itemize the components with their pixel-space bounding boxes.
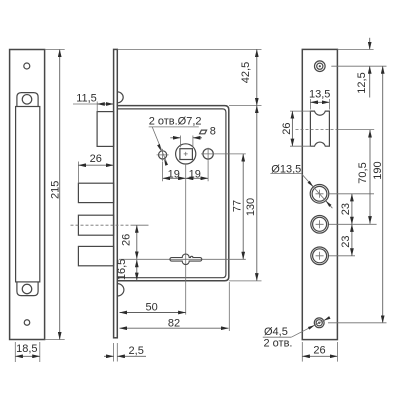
lock body outer outline [118, 106, 229, 281]
left plate bottom screw hole [24, 320, 30, 326]
bottom screw hole [314, 318, 324, 328]
dimension 26 bottom [302, 355, 337, 357]
svg-text:2,5: 2,5 [129, 345, 144, 357]
2,5 extension lines [113, 343, 115, 362]
svg-text:215: 215 [49, 181, 61, 199]
svg-text:12,5: 12,5 [356, 72, 368, 93]
lock body inner line [118, 109, 226, 278]
faceplate bottom bump [117, 284, 124, 296]
faceplate top bump [117, 92, 123, 103]
svg-text:19: 19 [189, 168, 201, 180]
12,5 bottom arrow stub [369, 66, 371, 97]
svg-text:19: 19 [168, 168, 180, 180]
right hole Ø7,2 [203, 149, 213, 159]
top hole center extension [331, 65, 386, 67]
dimension 13,5 [310, 101, 329, 103]
big hole C2 [311, 216, 329, 234]
2,5 outside arrows [104, 355, 114, 357]
left hole Ø7,2 [159, 151, 167, 159]
keyhole vertical centerline [185, 164, 187, 315]
body top extension [229, 105, 262, 107]
svg-text:2 отв.Ø7,2: 2 отв.Ø7,2 [149, 116, 202, 128]
big hole C3 [311, 247, 329, 265]
left plate bottom latch box [17, 282, 38, 296]
vertical dim 26 keyhole [136, 225, 138, 259]
right hole horizontal centerline to 77 dim [201, 153, 246, 155]
keyhole [170, 254, 202, 265]
left plate bottom latch circle [22, 284, 32, 294]
svg-text:50: 50 [145, 301, 157, 313]
label leader shelf [149, 126, 199, 128]
svg-text:23: 23 [340, 235, 352, 247]
left strike plate outline [10, 50, 45, 340]
dimension 190 [382, 66, 384, 323]
svg-text:77: 77 [231, 200, 243, 212]
dimension 23 upper [351, 194, 353, 225]
left plate top latch box [17, 93, 38, 107]
svg-text:8: 8 [210, 125, 216, 137]
svg-text:190: 190 [372, 161, 384, 179]
square hole [180, 149, 193, 160]
extension line top for 215 [45, 49, 65, 51]
Ø13,5 leader shelf [270, 173, 301, 175]
right plate top screw hole [315, 61, 326, 72]
dimension 26 cutout [291, 111, 293, 146]
13,5 extension lines [309, 99, 311, 110]
dimension 82 [120, 327, 229, 329]
left plate top latch circle [22, 95, 32, 105]
svg-text:16,5: 16,5 [116, 259, 128, 280]
dimension 70,5 [369, 130, 371, 224]
dimension 215 line [59, 50, 61, 340]
svg-text:11,5: 11,5 [76, 92, 97, 104]
big hole C1 [310, 185, 329, 204]
11,5 dimension line with tail [73, 103, 97, 105]
11,5 extension line [96, 102, 98, 112]
svg-text:13,5: 13,5 [309, 88, 330, 100]
Ø13,5 leader diagonal [301, 174, 332, 209]
26 bolts extension line [77, 162, 79, 184]
C1 extension line [329, 193, 374, 195]
square hole center mark [184, 152, 188, 156]
left plate top screw hole [24, 63, 30, 69]
svg-text:2 отв.: 2 отв. [264, 338, 293, 350]
svg-text:23: 23 [340, 203, 352, 215]
bolt A [78, 183, 113, 202]
C3 extension line [329, 255, 355, 257]
dimension 42,5 [256, 49, 258, 105]
12,5 outside arrows [369, 38, 371, 50]
right plate top extension [337, 48, 373, 50]
dimension 23 lower [351, 224, 353, 256]
svg-text:82: 82 [168, 318, 180, 330]
bolt B dashed centerline [71, 224, 133, 226]
bolt B [78, 215, 113, 235]
square hole circle [176, 144, 196, 164]
dimension 77 [242, 154, 244, 259]
26 cutout extension lines [290, 110, 311, 112]
8 dim outside arrows [170, 137, 180, 139]
bolt C [78, 246, 113, 265]
bottom hole center extension [328, 322, 387, 324]
extension lines for 18,5 [14, 342, 16, 362]
right hole vertical centerline [207, 148, 209, 160]
svg-text:42,5: 42,5 [240, 62, 252, 83]
svg-text:Ø4,5: Ø4,5 [264, 326, 288, 338]
Ø4,5 leader diagonal [291, 318, 329, 338]
body bottom extension [229, 280, 262, 282]
right plate outline [302, 49, 337, 339]
dimension 19 right [186, 177, 208, 179]
svg-text:130: 130 [245, 198, 257, 216]
Ø4,5 leader shelf [263, 336, 292, 338]
dimension 26 bolts [78, 164, 113, 166]
19 19 extension lines [162, 162, 164, 182]
vertical dim 16,5 [136, 260, 138, 281]
faceplate top extension to 42,5 [118, 48, 262, 50]
keyhole horizontal centerline [119, 258, 246, 260]
26 bottom extension lines [301, 342, 303, 362]
svg-text:26: 26 [281, 122, 293, 134]
dimension 130 [256, 106, 258, 281]
C2 extension line [329, 223, 377, 225]
svg-text:26: 26 [313, 345, 325, 357]
cutout dashed centerline [296, 129, 338, 131]
top bolt [97, 112, 114, 147]
svg-text:18,5: 18,5 [16, 343, 37, 355]
dimension 19 left [163, 177, 186, 179]
82 right extension [228, 282, 230, 331]
svg-text:70,5: 70,5 [357, 162, 369, 183]
extension line bottom for 215 [45, 339, 65, 341]
dimension 18,5 line [15, 355, 40, 357]
dimension 50 [120, 312, 186, 314]
8 dim extension lines from square corners [179, 136, 181, 148]
left plate inner rectangle [16, 107, 40, 282]
square symbol [200, 130, 207, 134]
leader to left hole [152, 127, 167, 163]
latch cutout [310, 111, 329, 146]
middle faceplate strip [114, 49, 118, 337]
left hole center cross [157, 149, 169, 161]
svg-text:26: 26 [90, 153, 102, 165]
svg-text:26: 26 [120, 234, 132, 246]
